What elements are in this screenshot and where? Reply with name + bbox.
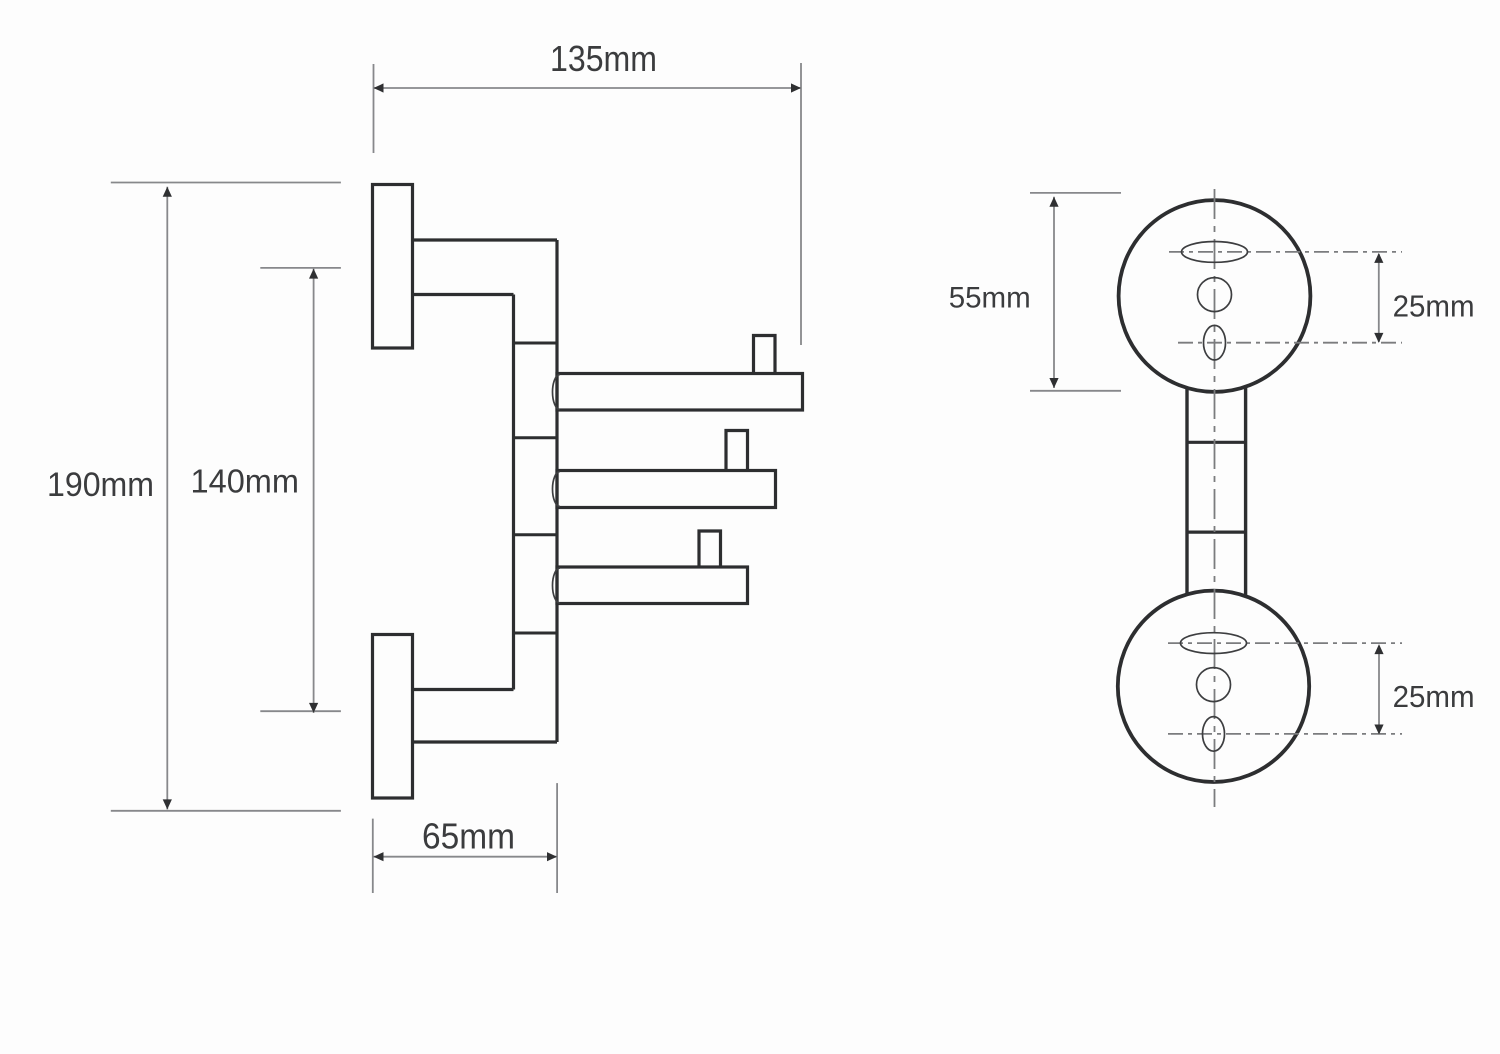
dimension 140mm extension line bottom	[260, 710, 341, 712]
center line through bottom lower hole	[1168, 733, 1402, 735]
pivot bar joint line 2	[514, 436, 558, 439]
wall rosette top (front view)	[1119, 200, 1311, 392]
pivot bar joint line 3	[514, 533, 558, 536]
dimension 190mm line	[166, 187, 168, 810]
svg-text:135mm: 135mm	[550, 38, 657, 79]
bottom rosette screw hole	[1197, 668, 1231, 702]
dimension 55mm extension line bottom	[1030, 390, 1121, 392]
dimension 140mm arrow top	[309, 269, 318, 279]
vertical pivot bar right edge	[555, 240, 558, 742]
center line through bottom screw slot	[1168, 642, 1402, 644]
connecting bar right edge (front view)	[1244, 387, 1247, 597]
bottom rosette lower slot	[1203, 717, 1225, 752]
dimension 65mm extension line right	[556, 783, 558, 893]
arm 3 hook peg	[699, 531, 721, 567]
dimension 25mm bottom arrow down	[1374, 725, 1383, 735]
top rosette lower slot	[1204, 325, 1226, 360]
dimension 65mm arrow left	[374, 852, 384, 861]
center line through top lower hole	[1178, 342, 1402, 344]
swivel arm 1	[557, 374, 803, 411]
dimension 190mm arrow top	[163, 187, 172, 197]
dimension 190mm extension line bottom	[111, 810, 341, 812]
arm 2 hook peg	[726, 431, 748, 471]
svg-text:25mm: 25mm	[1393, 679, 1475, 714]
dimension 190mm extension line top	[111, 182, 341, 184]
vertical center line	[1214, 189, 1216, 807]
connecting bar joint line 1	[1187, 441, 1246, 444]
top connector arm outline	[413, 240, 558, 295]
wall plate bottom (side view)	[373, 635, 413, 799]
dimension 140mm extension line top	[260, 267, 341, 269]
dimension 140mm line	[313, 269, 315, 713]
swivel arm 2	[557, 471, 776, 508]
wall rosette bottom (front view)	[1118, 591, 1309, 782]
bottom connector arm outline	[413, 690, 558, 743]
dimension 135mm arrow right	[791, 83, 801, 92]
dimension 55mm line	[1053, 197, 1055, 388]
dimension 135mm arrow left	[374, 83, 384, 92]
dimension 190mm arrow bottom	[163, 799, 172, 809]
svg-text:55mm: 55mm	[949, 281, 1031, 314]
dimension 140mm arrow bottom	[309, 703, 318, 713]
dimension 65mm line	[374, 856, 558, 858]
connecting bar left edge (front view)	[1185, 388, 1188, 594]
dimension 55mm arrow top	[1049, 197, 1058, 207]
connecting bar joint line 2	[1187, 530, 1246, 533]
dimension 135mm extension line left	[373, 64, 375, 153]
svg-text:25mm: 25mm	[1393, 289, 1475, 324]
dimension 55mm extension line top	[1030, 192, 1121, 194]
dimension 55mm arrow bottom	[1049, 378, 1058, 388]
arm 2 rounded end arc	[553, 472, 560, 507]
arm 3 rounded end arc	[553, 568, 560, 603]
dimension 65mm extension line left	[372, 819, 374, 893]
vertical pivot bar left edge	[512, 295, 515, 690]
pivot bar joint line 1	[514, 342, 558, 345]
dimension 135mm line	[374, 87, 802, 89]
dimension 25mm bottom line	[1378, 646, 1380, 733]
svg-text:140mm: 140mm	[191, 463, 300, 500]
top rosette slot ellipse	[1182, 242, 1248, 263]
svg-text:190mm: 190mm	[47, 466, 154, 504]
dimension 65mm arrow right	[547, 852, 557, 861]
arm 1 hook peg	[754, 336, 776, 374]
dimension 25mm top line	[1378, 254, 1380, 342]
center line through top screw slot	[1169, 251, 1402, 253]
dimension 25mm bottom arrow up	[1374, 644, 1383, 654]
dimension 25mm top arrow down	[1374, 333, 1383, 343]
arm 1 rounded end arc	[553, 375, 560, 410]
swivel arm 3	[557, 567, 748, 604]
wall plate top (side view)	[373, 185, 413, 349]
bottom rosette slot ellipse	[1181, 633, 1247, 654]
top rosette screw hole	[1198, 278, 1232, 312]
svg-text:65mm: 65mm	[422, 816, 515, 857]
dimension 135mm extension line right	[800, 63, 802, 345]
pivot bar joint line 4	[514, 632, 558, 635]
dimension 25mm top arrow up	[1374, 253, 1383, 263]
